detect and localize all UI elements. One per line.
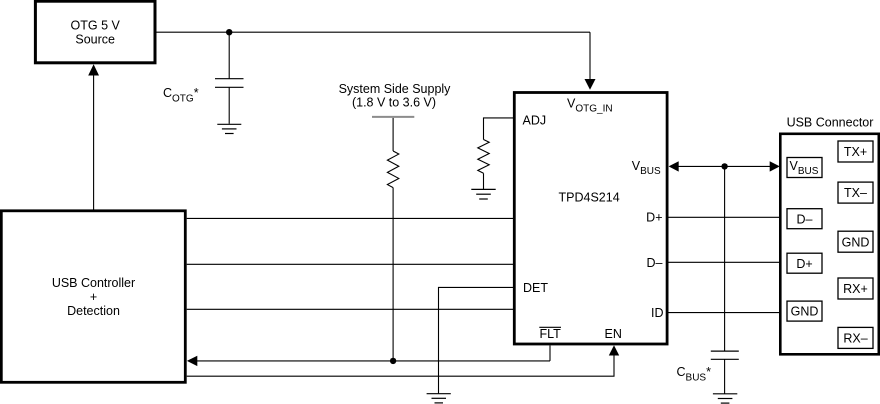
wire: ADJ resistor to ground [483,173,485,189]
resistor: ADJ to ground [478,140,489,174]
svg-text:TPD4S214: TPD4S214 [559,190,620,204]
wire: USB controller to OTG source (vertical) [93,75,95,210]
capacitor COTG [215,32,244,124]
svg-text:System Side Supply: System Side Supply [339,82,452,96]
svg-text:D–: D– [647,256,663,270]
wire: ADJ pin to resistor [484,118,515,140]
IC U1: TPD4S214 [514,93,667,345]
wire: FLT pin down [549,346,551,361]
svg-text:RX+: RX+ [843,282,868,296]
wire: controller to chip row 2 [187,263,514,265]
svg-text:EN: EN [605,327,622,341]
wire: VBUS bus (double arrow) [679,165,771,167]
svg-text:GND: GND [842,235,870,249]
svg-text:Source: Source [75,33,115,47]
connector pin box: TX+ [838,141,873,162]
block: USB Connector [780,134,879,354]
connector pin box: GND (right) [838,231,873,252]
wire: DET pin to ground drop [439,287,515,393]
svg-text:USB Controller: USB Controller [52,276,135,290]
supply label: System Side Supply [339,82,452,109]
svg-text:(1.8 V to 3.6 V): (1.8 V to 3.6 V) [352,96,436,110]
wire: chip ID to connector [668,312,780,314]
arrowhead into OTG source bottom [88,64,99,75]
svg-text:D+: D+ [796,257,812,271]
pin label: FLT (with overline) [539,327,561,341]
svg-text:Detection: Detection [67,304,120,318]
supply rail bar [372,116,414,118]
wire: controller to chip row 3 [187,308,514,310]
node: CBUS junction dot [721,163,727,169]
arrowhead into VOTG_IN pin [585,79,596,90]
connector pin box: TX- [838,182,873,203]
arrowhead into connector VBUS [770,161,780,171]
svg-text:ID: ID [651,306,664,320]
wire: controller to EN [187,355,614,376]
wire: chip D+ to connector [668,216,780,218]
svg-text:GND: GND [791,305,819,319]
connector pin box: D+ [787,253,822,273]
wire: controller to chip row 1 [187,217,514,219]
svg-text:D+: D+ [646,211,662,225]
svg-text:RX–: RX– [843,332,867,346]
wire: chip D- to connector [668,261,780,263]
svg-text:TX+: TX+ [844,145,867,159]
node: COTG junction dot [226,29,232,35]
svg-text:D–: D– [797,212,813,226]
arrowhead into controller (FLT) [187,356,197,366]
ground for DET [427,394,451,403]
ground for ADJ resistor [471,189,495,199]
svg-text:OTG 5 V: OTG 5 V [71,18,121,32]
wire: rail to resistor [392,118,394,151]
wire: VOTG_IN drop (vertical) [589,32,591,79]
wire: FLT to controller [197,360,550,362]
capacitor CBUS [711,166,739,393]
connector pin box: GND (left) [787,301,822,321]
block: OTG 5 V Source [35,1,155,63]
ground for COTG [217,124,241,133]
svg-text:ADJ: ADJ [523,114,547,128]
svg-text:USB Connector: USB Connector [787,115,874,129]
resistor: FLT pull-up [387,151,398,188]
connector pin box: D- [787,209,822,229]
node: junction on FLT line [390,358,396,364]
svg-text:DET: DET [523,281,548,295]
connector pin box: RX+ [838,278,873,299]
arrowhead into chip VBUS [669,161,679,171]
svg-text:FLT: FLT [540,327,562,341]
block: USB Controller + Detection [1,211,185,382]
ground for CBUS [713,394,737,403]
connector pin box: RX- [838,327,873,348]
svg-text:TX–: TX– [844,186,867,200]
svg-text:+: + [90,290,97,304]
connector pin box: VBUS [787,158,822,178]
wire: OTG source output to VOTG_IN (horizontal) [155,31,590,33]
wire: resistor down to FLT line [392,188,394,361]
arrowhead into EN pin [609,345,619,355]
